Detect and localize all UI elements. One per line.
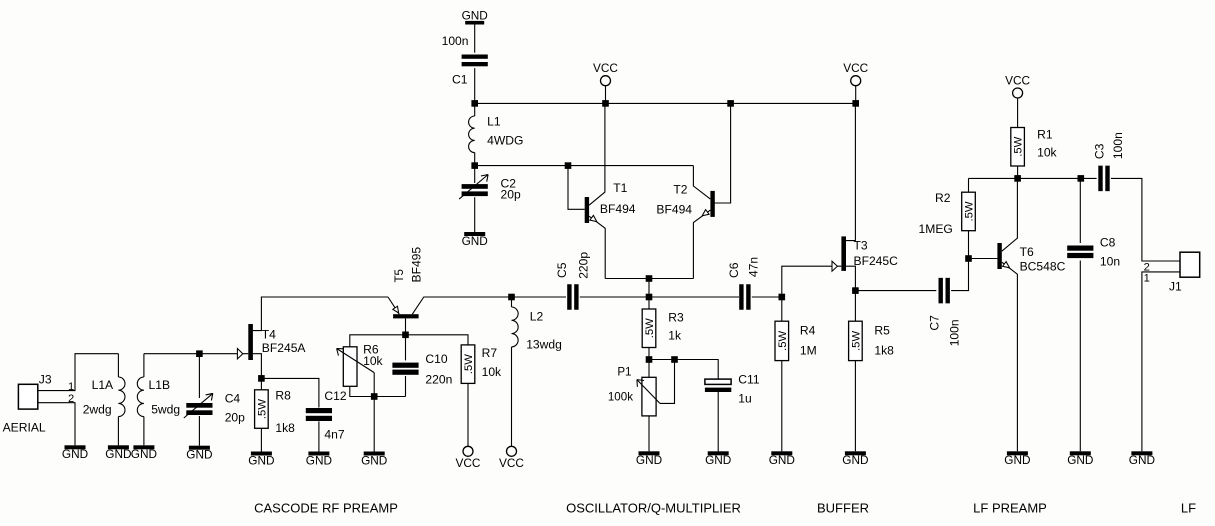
inductor L2 xyxy=(512,307,519,347)
potentiometer P1 body xyxy=(642,377,656,416)
svg-text:J3: J3 xyxy=(39,372,52,386)
wire R7 to VCC xyxy=(467,383,469,446)
capacitor C7 xyxy=(939,278,950,304)
svg-text:20p: 20p xyxy=(501,187,521,201)
wire L1A bottom xyxy=(117,417,119,446)
wire T4 drain xyxy=(253,297,388,331)
junction T5 base node xyxy=(402,332,409,339)
ground C12 xyxy=(306,452,332,468)
svg-text:47n: 47n xyxy=(747,257,761,277)
wire node to C2 xyxy=(474,166,476,183)
transistor T6 bar xyxy=(997,243,1001,269)
svg-text:C10: C10 xyxy=(425,352,447,366)
wire C5 to node xyxy=(580,296,739,298)
potentiometer P1 wiper xyxy=(637,380,660,404)
svg-text:T2: T2 xyxy=(673,183,687,197)
svg-text:1u: 1u xyxy=(738,391,751,405)
svg-text:R8: R8 xyxy=(275,389,291,403)
svg-text:C3: C3 xyxy=(1093,143,1107,159)
svg-text:BF245A: BF245A xyxy=(262,341,307,355)
junction T6 base node xyxy=(965,255,972,262)
svg-text:VCC: VCC xyxy=(593,61,618,75)
wire P1 wiper link xyxy=(660,360,675,404)
capacitor C10 xyxy=(392,363,418,375)
svg-text:.5W: .5W xyxy=(850,331,862,351)
svg-text:T4: T4 xyxy=(262,328,276,342)
junction T4 source node xyxy=(258,375,265,382)
wire L1A top xyxy=(117,354,119,377)
ground C8 xyxy=(1067,451,1093,467)
svg-text:GND: GND xyxy=(186,448,212,462)
svg-text:100n: 100n xyxy=(442,34,469,48)
wire R3 node right xyxy=(649,360,718,380)
svg-text:C8: C8 xyxy=(1100,236,1116,250)
wire R2 bottom xyxy=(968,231,970,259)
svg-text:1k8: 1k8 xyxy=(275,421,295,435)
resistor R2 xyxy=(962,192,976,231)
svg-text:L1A: L1A xyxy=(92,378,114,392)
svg-text:R7: R7 xyxy=(482,346,498,360)
capacitor C5 xyxy=(567,284,578,310)
wire node to P1 xyxy=(648,360,650,378)
svg-text:C12: C12 xyxy=(324,389,346,403)
svg-text:10k: 10k xyxy=(1037,146,1057,160)
svg-text:L2: L2 xyxy=(530,309,544,323)
svg-text:100n: 100n xyxy=(948,319,962,346)
wire VCC stub 2 xyxy=(855,86,857,104)
wire C7 to T6 node xyxy=(951,259,968,291)
power VCC below L2 xyxy=(499,446,524,470)
wire source node to R8 xyxy=(260,378,262,389)
svg-text:GND: GND xyxy=(842,453,868,467)
wire base node right to R7 xyxy=(406,335,469,345)
wire node to R4 xyxy=(781,297,783,321)
svg-text:GND: GND xyxy=(462,234,488,248)
ground L1A xyxy=(105,445,131,461)
wire C2 to ground xyxy=(474,197,476,232)
wire R6 wiper down xyxy=(373,373,375,397)
transistor T1 bar xyxy=(585,197,589,223)
svg-text:R2: R2 xyxy=(935,191,951,205)
svg-text:C5: C5 xyxy=(555,262,569,278)
inductor L1 xyxy=(469,116,475,153)
ground C11 xyxy=(705,451,731,467)
transistor T1 collector xyxy=(589,103,605,205)
wire L1B to T4 gate xyxy=(144,353,248,355)
svg-text:.5W: .5W xyxy=(1013,136,1025,156)
connector J1 xyxy=(1180,252,1200,277)
svg-text:1: 1 xyxy=(1144,272,1150,284)
wire J3 pin1 xyxy=(38,354,119,391)
svg-text:BF494: BF494 xyxy=(600,202,636,216)
wire VCC stub xyxy=(605,86,607,104)
junction R1 bottom xyxy=(1014,175,1021,182)
transistor T2 collector xyxy=(693,166,710,200)
ground P1 xyxy=(636,451,662,467)
svg-text:13wdg: 13wdg xyxy=(526,338,562,352)
transistor T5 bar xyxy=(393,314,419,318)
wire T5 base xyxy=(405,318,407,334)
resistor R1 xyxy=(1011,128,1025,167)
inductor L1B xyxy=(137,377,144,417)
svg-text:T5: T5 xyxy=(394,269,406,282)
power VCC below R7 xyxy=(456,446,481,470)
transistor T4 bar xyxy=(248,324,253,360)
svg-text:BF245C: BF245C xyxy=(854,254,899,268)
svg-text:AERIAL: AERIAL xyxy=(3,421,46,435)
wire node to ground xyxy=(373,397,375,452)
wire emitters join xyxy=(605,278,693,280)
wire T3 drain xyxy=(846,103,855,240)
ground below C2 xyxy=(462,232,488,248)
svg-text:20p: 20p xyxy=(225,410,245,424)
svg-text:P1: P1 xyxy=(617,365,631,378)
wire R4 to ground xyxy=(781,361,783,452)
capacitor C3 xyxy=(1098,166,1109,192)
svg-text:.5W: .5W xyxy=(256,399,268,419)
transistor T2 bar xyxy=(710,191,714,217)
svg-text:GND: GND xyxy=(705,453,731,467)
transistor T6 collector xyxy=(1002,178,1018,251)
svg-text:.5W: .5W xyxy=(964,201,976,221)
junction signal at L2 xyxy=(508,294,515,301)
transistor T6 emitter xyxy=(1002,262,1018,451)
wire source node to C7 xyxy=(855,290,936,292)
transistor T3 bar xyxy=(841,236,846,271)
svg-text:10k: 10k xyxy=(482,365,502,379)
junction signal at R3 xyxy=(646,294,653,301)
svg-text:4WDG: 4WDG xyxy=(487,134,523,148)
power VCC oscillator xyxy=(593,61,618,86)
wire T3 source xyxy=(846,266,855,290)
svg-text:L1: L1 xyxy=(487,115,501,129)
svg-text:GND: GND xyxy=(769,453,795,467)
svg-text:.5W: .5W xyxy=(777,331,789,351)
svg-text:R5: R5 xyxy=(874,324,890,338)
svg-text:LF PREAMP: LF PREAMP xyxy=(973,501,1047,516)
resistor R8 xyxy=(255,390,269,429)
resistor R5 xyxy=(849,321,863,360)
ground R8 xyxy=(248,452,274,468)
wire L2 top xyxy=(511,297,513,307)
svg-text:BF494: BF494 xyxy=(656,202,692,216)
svg-text:VCC: VCC xyxy=(499,456,524,470)
wire GND to C1 xyxy=(474,25,476,53)
resistor R4 xyxy=(775,321,789,360)
svg-text:5wdg: 5wdg xyxy=(151,403,180,417)
svg-text:VCC: VCC xyxy=(843,61,868,75)
junction emitters xyxy=(646,275,653,282)
transistor T2 emitter xyxy=(693,210,710,278)
wire P1 to ground xyxy=(648,416,650,451)
wire base node to T6 xyxy=(969,258,998,260)
svg-text:.5W: .5W xyxy=(463,354,475,374)
svg-text:100n: 100n xyxy=(1111,132,1125,159)
transistor T3 gate arrow xyxy=(832,261,837,271)
wire VCC bus xyxy=(475,102,856,104)
svg-text:GND: GND xyxy=(131,447,157,461)
resistor R7 xyxy=(461,345,475,384)
junction bus at VCC1 xyxy=(602,100,609,107)
wire C3 to J1 pin2 xyxy=(1111,178,1180,261)
svg-text:10k: 10k xyxy=(363,354,383,368)
svg-text:GND: GND xyxy=(636,453,662,467)
wire base node to C10 xyxy=(405,335,407,361)
ground J3 pin2 xyxy=(62,445,88,461)
inductor L1A xyxy=(118,377,125,417)
capacitor C11 xyxy=(705,379,731,392)
wire J1 pin1 to ground xyxy=(1142,272,1180,451)
wire C1 to VCC bus xyxy=(474,68,476,103)
svg-text:GND: GND xyxy=(1129,453,1155,467)
svg-text:4n7: 4n7 xyxy=(324,428,344,442)
wire C4 bottom xyxy=(198,416,200,446)
junction R3 bottom xyxy=(646,356,653,363)
svg-text:100k: 100k xyxy=(608,390,633,403)
svg-text:GND: GND xyxy=(462,8,488,22)
svg-text:BF495: BF495 xyxy=(410,247,424,283)
svg-text:220n: 220n xyxy=(425,373,452,387)
junction P1 wiper node xyxy=(671,356,678,363)
svg-text:GND: GND xyxy=(105,447,131,461)
capacitor C1 xyxy=(462,55,488,67)
junction bus at L1 xyxy=(471,100,478,107)
wire L2 to VCC xyxy=(511,347,513,446)
svg-text:220p: 220p xyxy=(577,252,591,279)
wire source node to C12 xyxy=(261,378,319,407)
ground R6/C10 xyxy=(361,452,387,468)
svg-text:1M: 1M xyxy=(800,343,817,357)
junction T3 gate node xyxy=(779,294,786,301)
svg-text:LF: LF xyxy=(1181,501,1196,516)
capacitor C8 xyxy=(1067,246,1093,259)
wire node to R3 xyxy=(648,297,650,309)
capacitor C6 xyxy=(739,284,750,310)
ground T6 xyxy=(1004,451,1030,467)
junction tank at T1 base xyxy=(565,162,572,169)
junction C4 tap xyxy=(196,350,203,357)
svg-text:T6: T6 xyxy=(1020,245,1034,259)
connector J3 xyxy=(18,384,37,409)
wire VCC to R1 xyxy=(1017,98,1019,128)
svg-text:OSCILLATOR/Q-MULTIPLIER: OSCILLATOR/Q-MULTIPLIER xyxy=(566,501,741,516)
wire R8 to ground xyxy=(260,428,262,451)
power VCC buffer xyxy=(843,61,868,86)
svg-text:BUFFER: BUFFER xyxy=(817,501,869,516)
svg-text:GND: GND xyxy=(1067,453,1093,467)
svg-text:L1B: L1B xyxy=(149,378,171,392)
svg-text:10n: 10n xyxy=(1100,254,1120,268)
wire tank node xyxy=(475,165,694,167)
svg-text:BC548C: BC548C xyxy=(1020,259,1066,273)
resistor R3 xyxy=(642,309,656,348)
wire T2 base to bus xyxy=(714,103,731,203)
junction T3 source node xyxy=(852,287,859,294)
wire C10 bottom xyxy=(405,376,407,397)
power VCC LF preamp xyxy=(1005,74,1030,99)
wire L1B top xyxy=(143,354,145,377)
wire signal to C5 xyxy=(512,296,567,298)
svg-text:GND: GND xyxy=(62,447,88,461)
wire bus to L1 xyxy=(474,103,476,116)
svg-text:GND: GND xyxy=(306,453,332,467)
wire feedback node xyxy=(969,177,1097,179)
wire R1 bottom xyxy=(1017,166,1019,178)
svg-text:VCC: VCC xyxy=(1005,74,1030,88)
svg-text:C7: C7 xyxy=(928,315,942,331)
wire T4 source xyxy=(253,354,262,379)
svg-text:1MEG: 1MEG xyxy=(919,222,953,236)
transistor T5 emitter xyxy=(388,297,399,314)
svg-text:GND: GND xyxy=(361,453,387,467)
wire C8 to ground xyxy=(1079,261,1081,452)
wire C11 to ground xyxy=(717,392,719,451)
svg-text:R1: R1 xyxy=(1037,127,1053,141)
svg-text:CASCODE RF PREAMP: CASCODE RF PREAMP xyxy=(254,501,398,516)
wire node up to T3 gate xyxy=(782,266,842,297)
trimmer R6 wiper xyxy=(337,349,375,373)
svg-text:C4: C4 xyxy=(225,392,241,406)
wire L1B bottom xyxy=(143,417,145,446)
wire C6 to node xyxy=(752,296,782,298)
transistor T4 gate arrow xyxy=(237,349,242,359)
ground R4 xyxy=(769,451,795,467)
wire emitters to signal node xyxy=(648,279,650,298)
trimmer capacitor C4 xyxy=(184,393,213,418)
svg-text:J1: J1 xyxy=(1169,279,1182,293)
wire base node left to R6 xyxy=(350,335,406,347)
wire node to R2 xyxy=(968,178,970,192)
svg-text:.5W: .5W xyxy=(644,318,656,338)
wire C12 to ground xyxy=(318,421,320,451)
svg-text:C6: C6 xyxy=(727,262,741,278)
svg-text:GND: GND xyxy=(248,453,274,467)
transistor T5 collector xyxy=(412,297,511,314)
svg-text:1k: 1k xyxy=(668,329,682,343)
wire node to C8 xyxy=(1079,178,1081,243)
junction bus at T2 base xyxy=(727,100,734,107)
junction bus at T3 drain xyxy=(852,100,859,107)
wire R3 bottom xyxy=(648,348,650,360)
svg-text:VCC: VCC xyxy=(456,456,481,470)
svg-text:R3: R3 xyxy=(668,310,684,324)
svg-text:C1: C1 xyxy=(452,73,468,87)
svg-text:1k8: 1k8 xyxy=(874,343,894,357)
wire R5 to ground xyxy=(854,361,856,452)
svg-text:2wdg: 2wdg xyxy=(83,403,112,417)
wire node to R5 xyxy=(854,291,856,322)
wire L1 to node xyxy=(474,153,476,166)
junction L1 bottom xyxy=(471,162,478,169)
junction R6 bottom node xyxy=(371,393,378,400)
capacitor C12 xyxy=(306,408,332,421)
wire C4 top xyxy=(198,354,200,398)
ground R5 xyxy=(842,451,868,467)
svg-text:C11: C11 xyxy=(738,372,760,386)
svg-text:T1: T1 xyxy=(613,181,627,195)
transistor T1 emitter xyxy=(589,216,605,278)
resistor R6 (trimmer) xyxy=(343,347,357,387)
trimmer capacitor C2 xyxy=(459,175,488,200)
wire T1 base xyxy=(568,166,585,210)
junction C8 node xyxy=(1078,175,1085,182)
svg-text:GND: GND xyxy=(1004,453,1030,467)
svg-text:R4: R4 xyxy=(800,324,816,338)
wire R6 bottom xyxy=(350,386,406,396)
wire J3 pin2 xyxy=(38,403,75,446)
ground J1 xyxy=(1129,451,1155,467)
ground above C1 xyxy=(462,8,488,24)
ground C4 xyxy=(186,446,212,462)
ground L1B xyxy=(131,445,157,461)
